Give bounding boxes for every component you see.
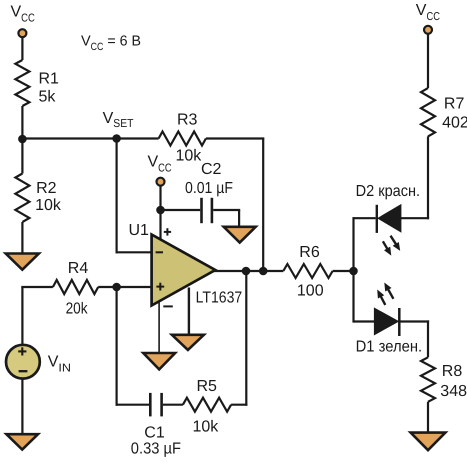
svg-text:C2: C2 <box>201 161 222 178</box>
svg-text:402: 402 <box>442 115 467 132</box>
svg-text:0.33 µF: 0.33 µF <box>131 441 181 458</box>
svg-text:R8: R8 <box>442 363 463 380</box>
svg-text:20k: 20k <box>66 300 89 317</box>
svg-text:LT1637: LT1637 <box>196 289 243 306</box>
svg-text:D1 зелен.: D1 зелен. <box>356 339 423 356</box>
svg-text:0.01 µF: 0.01 µF <box>185 180 233 197</box>
svg-text:100: 100 <box>297 283 324 300</box>
svg-text:10k: 10k <box>193 419 220 436</box>
svg-text:5k: 5k <box>39 89 57 106</box>
svg-text:R1: R1 <box>39 71 60 88</box>
svg-text:R3: R3 <box>177 112 198 129</box>
svg-text:R7: R7 <box>444 96 465 113</box>
svg-text:R5: R5 <box>197 378 218 395</box>
svg-text:10k: 10k <box>176 148 203 165</box>
svg-text:10k: 10k <box>35 197 62 214</box>
svg-text:= 6 В: = 6 В <box>107 34 141 50</box>
svg-text:D2 красн.: D2 красн. <box>356 183 421 200</box>
svg-text:R4: R4 <box>68 260 89 277</box>
svg-text:R6: R6 <box>299 244 320 261</box>
svg-text:R2: R2 <box>36 180 57 197</box>
svg-text:348: 348 <box>440 383 467 400</box>
svg-text:C1: C1 <box>144 425 165 442</box>
svg-text:U1: U1 <box>129 222 150 239</box>
